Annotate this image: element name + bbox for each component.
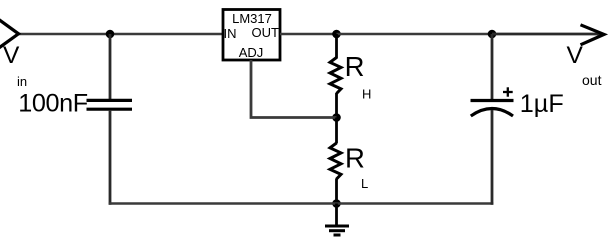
wire: RH bottom to ADJ node (335, 93, 338, 118)
wire: ground rail left (C1 to ground node) (109, 202, 337, 205)
wire: divider midpoint to LM317 ADJ pin (251, 60, 337, 118)
wire: ADJ node down to resistor RL (335, 118, 338, 144)
wire: C2 bottom plate down to ground rail (491, 110, 494, 205)
part label LM317 (232, 11, 272, 26)
svg-text:OUT: OUT (252, 25, 280, 40)
svg-text:IN: IN (224, 26, 237, 41)
svg-text:100nF: 100nF (18, 89, 87, 117)
svg-text:LM317: LM317 (232, 11, 272, 26)
label Vin (3, 42, 27, 89)
resistor RL (lower divider resistor) (330, 143, 341, 179)
wire: ground rail right (ground node to C2) (337, 202, 494, 205)
label RH (345, 51, 372, 102)
svg-text:V: V (3, 42, 20, 69)
output terminal arrowhead (Vout) (581, 25, 605, 45)
capacitor C2 (1uF output cap, polarized) (471, 101, 514, 117)
regulator U1 LM317 body (223, 10, 280, 61)
svg-text:ADJ: ADJ (239, 45, 264, 60)
svg-text:R: R (345, 51, 365, 82)
svg-text:H: H (362, 87, 371, 102)
polarity mark + for C2 (503, 87, 513, 96)
wire: Vin arrow shaft to LM317 IN pin (18, 33, 223, 36)
wire: divider node across to output cap node (337, 33, 493, 36)
input terminal arrowhead (Vin) (0, 18, 19, 51)
wire: input node down to C1 top plate (109, 34, 112, 100)
svg-text:L: L (361, 176, 368, 191)
wire: LM317 OUT pin to output-divider node (280, 33, 337, 36)
pin label OUT (252, 25, 280, 40)
value label 100nF (18, 89, 87, 117)
junction node: ground rail node (332, 199, 341, 208)
wire: RL bottom to ground node (335, 179, 338, 204)
pin label ADJ (239, 45, 264, 60)
junction node: input node (top of C1) (106, 30, 115, 39)
svg-text:1µF: 1µF (520, 90, 564, 118)
resistor RH (upper divider resistor) (330, 58, 341, 94)
wire: junction down to resistor RH (335, 34, 338, 59)
wire: C1 bottom plate down to ground rail (109, 111, 112, 205)
wire: output node to Vout arrow (492, 33, 601, 36)
label Vout (567, 42, 602, 88)
ground symbol (325, 204, 349, 236)
label RL (345, 142, 368, 191)
junction node: regulator output at RH top (332, 30, 341, 39)
wire: output node down to C2 top plate (491, 34, 494, 100)
pin label IN (224, 26, 237, 41)
value label 1uF (520, 90, 564, 118)
capacitor C1 (100nF input cap) (87, 100, 133, 109)
junction node: output node (top of C2) (488, 30, 497, 39)
svg-text:in: in (17, 74, 27, 89)
svg-text:out: out (582, 72, 602, 88)
junction node: ADJ / divider midpoint (332, 113, 341, 122)
svg-text:V: V (567, 42, 584, 69)
svg-text:R: R (345, 142, 365, 173)
